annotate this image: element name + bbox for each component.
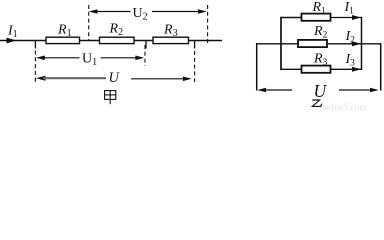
- resistor R2 (parallel): [298, 40, 327, 47]
- wire: bottom branch left: [281, 68, 302, 70]
- dimension U : right arrow: [183, 77, 192, 82]
- dashed extension line at left node: [34, 51, 36, 83]
- dimension U1 : left arrow: [36, 56, 45, 61]
- resistor R3: [153, 37, 189, 43]
- dimension U2 : right arrow: [198, 9, 207, 14]
- dimension U : left arrow: [36, 76, 46, 81]
- current arrow I2 (parallel): [352, 41, 361, 46]
- resistor R1 (parallel): [302, 14, 331, 21]
- dimension U (parallel) : right arrow: [370, 88, 379, 93]
- dashed extension line at node after R3: [194, 51, 196, 82]
- wire: main series wire: [0, 40, 222, 42]
- dashed extension line at node between R2 and R3: [144, 45, 146, 66]
- dimension U (parallel) : left line segment: [262, 89, 292, 91]
- node tick: junction after R3: [194, 41, 196, 49]
- dimension U (parallel) : left arrow: [257, 88, 266, 93]
- wire: top branch left: [281, 17, 302, 19]
- wire: bottom branch right: [331, 68, 362, 70]
- current arrow I1 on wire: [7, 38, 17, 44]
- node tick: junction between R2 and R3: [145, 41, 147, 49]
- resistor R3 (parallel): [302, 66, 331, 73]
- dimension U2 : left line segment: [92, 11, 131, 13]
- wire: middle branch right: [327, 43, 381, 45]
- dimension U (parallel) : right line segment: [339, 89, 375, 91]
- dimension U1 : left line segment: [40, 57, 80, 59]
- svg-text:U: U: [109, 70, 121, 86]
- resistor R2: [100, 37, 135, 43]
- dimension U : right line segment: [131, 78, 189, 80]
- label 乙 (drawn): [312, 100, 321, 106]
- svg-text:U: U: [314, 81, 328, 101]
- wire: right inner rail: [361, 17, 363, 70]
- dashed extension line at right end: [207, 5, 209, 44]
- wire: left outer rail: [256, 43, 258, 90]
- svg-text:anfen5.com: anfen5.com: [322, 102, 367, 112]
- current arrow I3 (parallel): [352, 67, 361, 72]
- current arrow I1 (parallel): [352, 15, 361, 20]
- dashed extension line at node between R1 and R2: [88, 5, 90, 40]
- wire: middle branch left: [256, 43, 298, 45]
- resistor R1: [46, 37, 80, 43]
- node tick: left junction: [34, 41, 36, 49]
- dimension U : left line segment (gray): [43, 77, 106, 79]
- dimension U1 : right arrow: [135, 56, 144, 61]
- dimension U2 : left arrow: [89, 9, 98, 14]
- wire: top branch right: [331, 17, 362, 19]
- dimension U1 : right line segment: [101, 57, 142, 59]
- wire: left inner rail: [280, 17, 282, 70]
- label 甲 (drawn): [105, 91, 116, 105]
- dimension U2 : right line segment: [152, 11, 204, 13]
- wire: right outer rail: [380, 43, 382, 90]
